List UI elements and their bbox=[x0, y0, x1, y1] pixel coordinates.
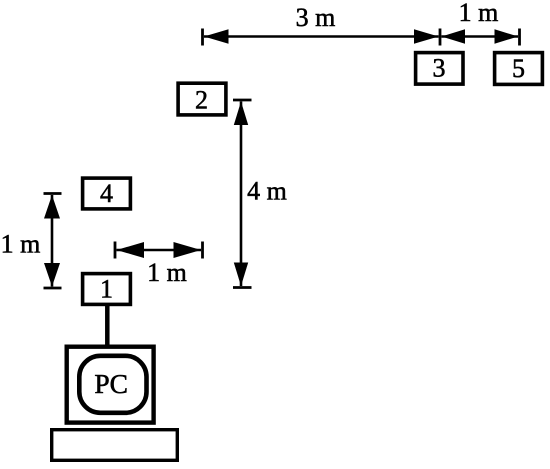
node 3 box bbox=[416, 53, 463, 85]
dimension arrow 1 m (left vertical) bbox=[1, 194, 62, 289]
svg-text:3 m: 3 m bbox=[296, 3, 336, 32]
node 1 box bbox=[83, 274, 131, 305]
dimension arrow 4 m (vertical) bbox=[233, 100, 287, 288]
dimension arrow 3 m bbox=[203, 3, 441, 46]
svg-text:PC: PC bbox=[94, 368, 128, 399]
svg-text:3: 3 bbox=[433, 54, 446, 83]
node 2 box bbox=[178, 83, 226, 115]
svg-text:1 m: 1 m bbox=[147, 258, 187, 287]
wire from node 1 to PC bbox=[105, 306, 110, 345]
svg-text:1: 1 bbox=[100, 275, 113, 304]
svg-text:1 m: 1 m bbox=[459, 0, 499, 27]
svg-text:5: 5 bbox=[512, 54, 525, 83]
node 5 box bbox=[495, 53, 543, 85]
node 4 box bbox=[83, 178, 131, 209]
dimension arrow 1 m (middle horizontal) bbox=[115, 242, 203, 288]
PC monitor bbox=[67, 347, 154, 423]
svg-text:4 m: 4 m bbox=[247, 177, 287, 206]
svg-text:4: 4 bbox=[100, 179, 113, 208]
dimension arrow 1 m (top right) bbox=[442, 0, 520, 46]
PC base bbox=[52, 430, 178, 461]
svg-text:1 m: 1 m bbox=[1, 230, 41, 259]
svg-text:2: 2 bbox=[195, 86, 208, 115]
